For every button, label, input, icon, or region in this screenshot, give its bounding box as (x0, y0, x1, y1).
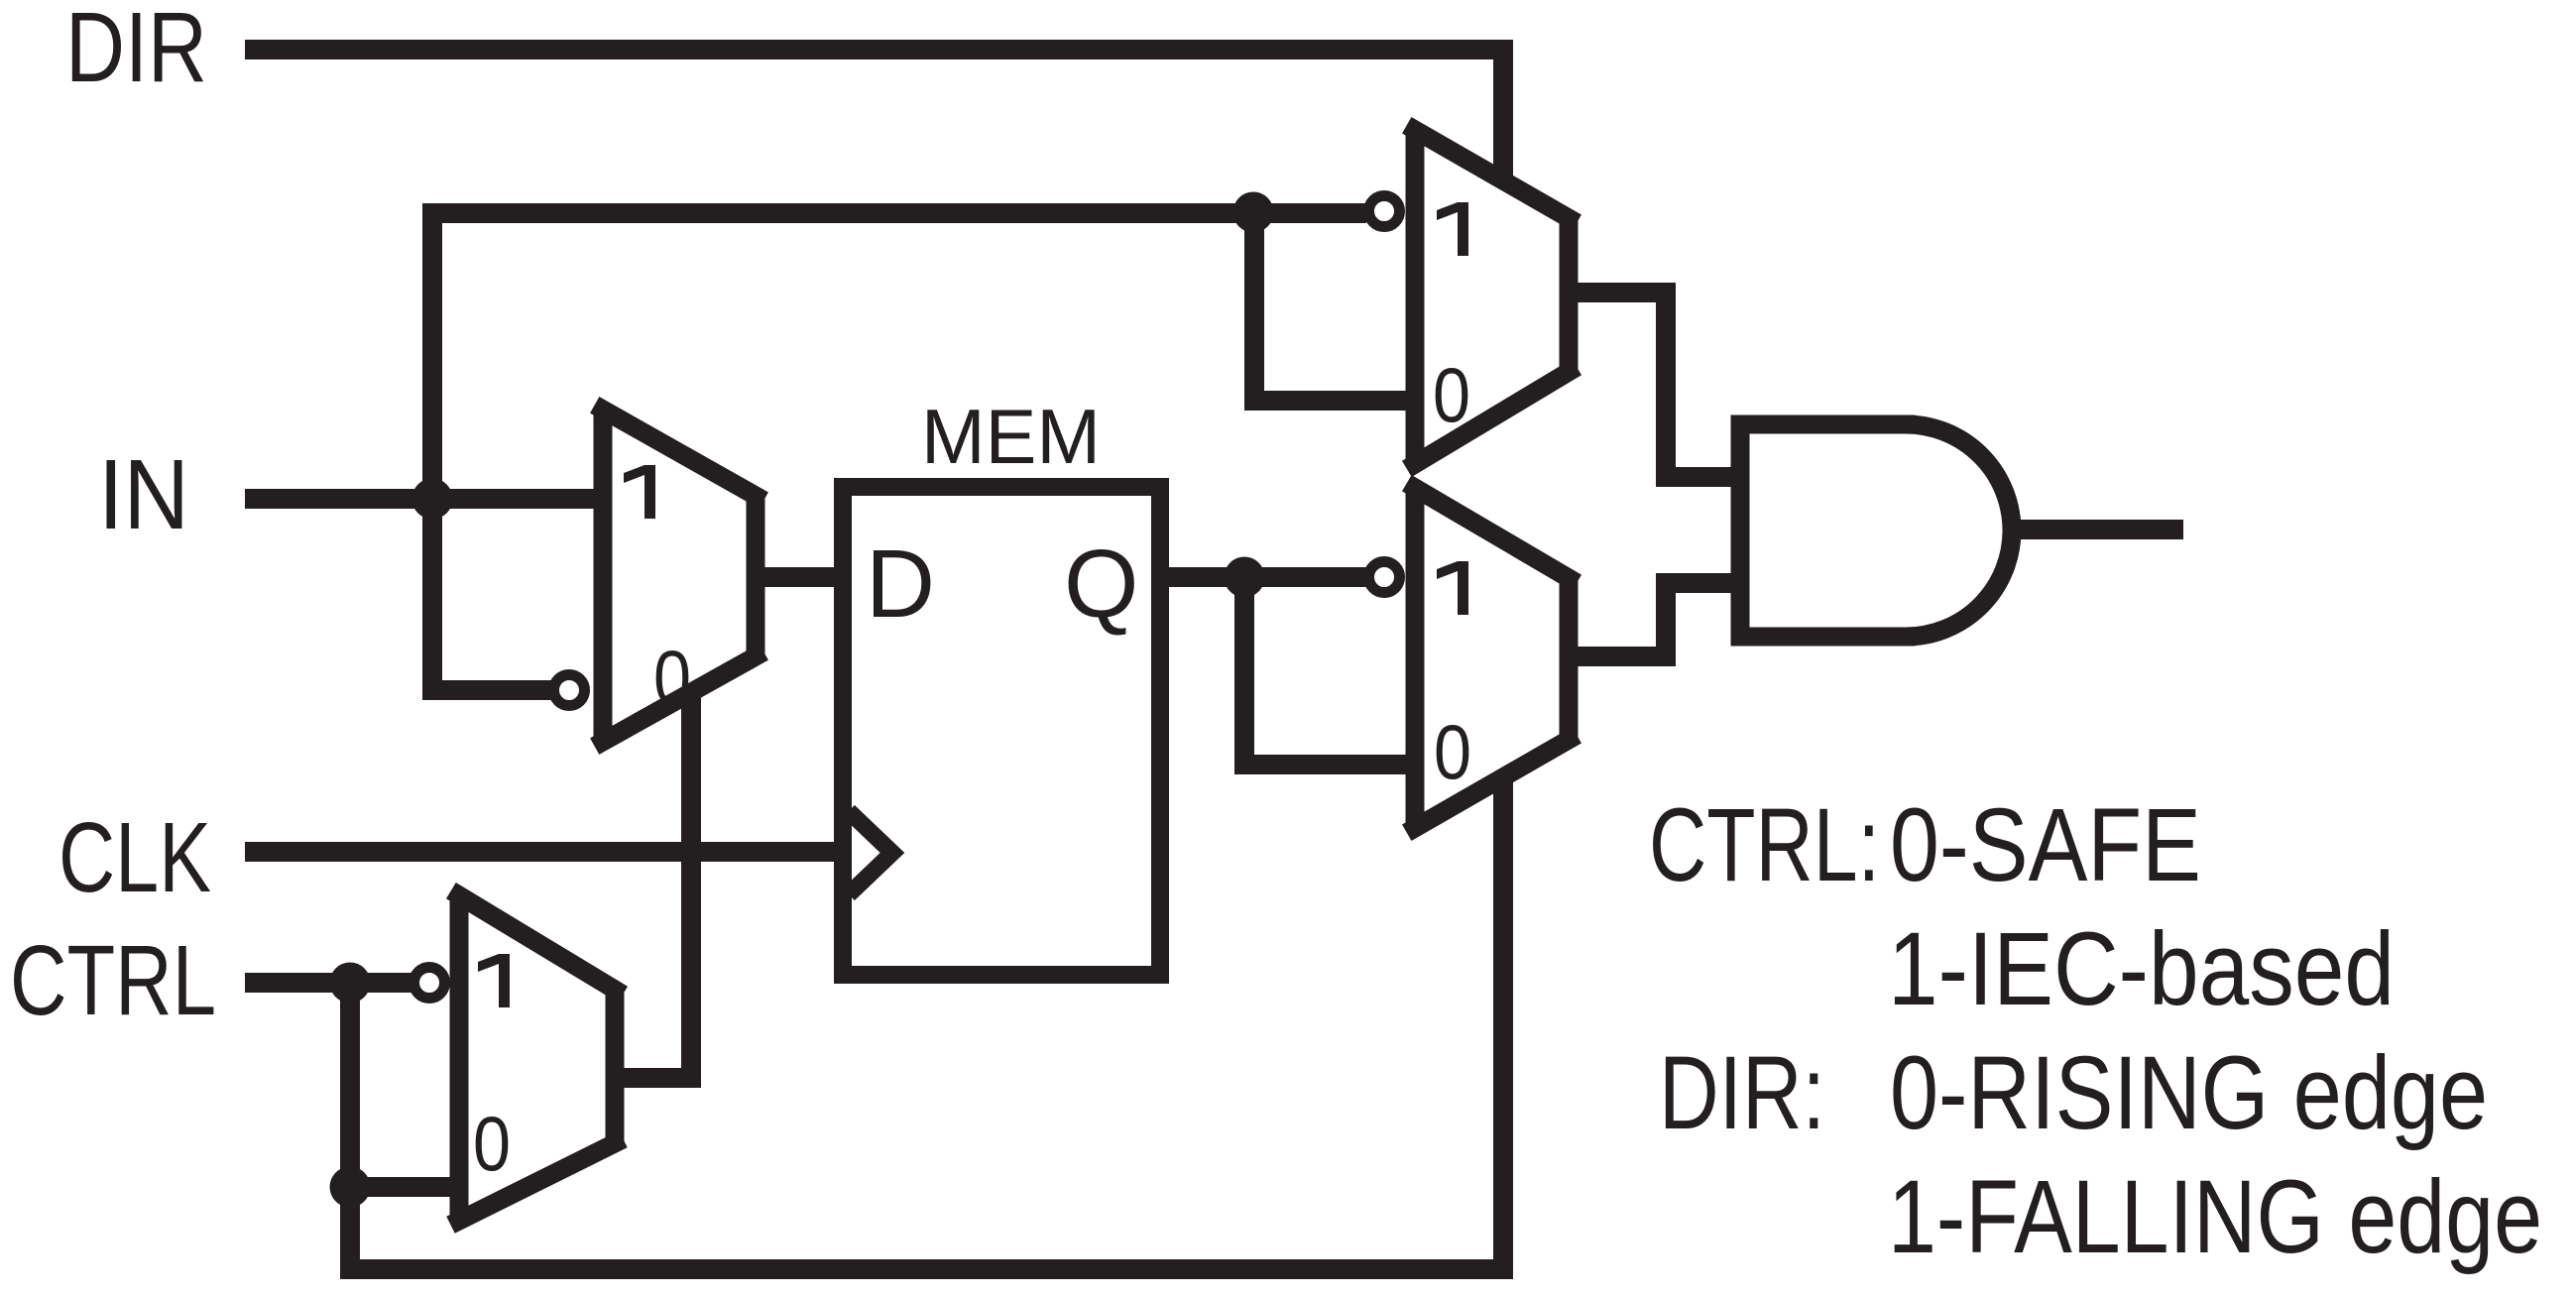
wire IN feedback to top mux (432, 213, 1366, 690)
svg-text:0-RISING edge: 0-RISING edge (1890, 1035, 2488, 1151)
junction CTRL node 1 (330, 963, 371, 1004)
wire CTRL mux 0-input (350, 1177, 464, 1197)
junction CTRL node 2 (330, 1167, 371, 1208)
wire AND output (2012, 520, 2183, 539)
pin label 1 of mux U3 (1437, 561, 1468, 615)
mux U4 (CTRL) (459, 895, 615, 1221)
svg-text:0: 0 (473, 1100, 511, 1187)
wire CTRL branch to 0-input and bottom rail (350, 773, 1503, 1269)
wire bottom mux output to AND (1569, 583, 1735, 656)
svg-text:D: D (866, 530, 935, 638)
svg-text:0: 0 (1433, 351, 1470, 438)
wire CLK (245, 842, 839, 862)
mux U1 (IN select) (603, 410, 756, 742)
svg-text:0: 0 (1434, 708, 1471, 795)
wire DIR net (245, 50, 1503, 184)
svg-text:0: 0 (653, 634, 691, 721)
wire CTRL (245, 973, 414, 993)
bubble on mux U4 input 1 (414, 968, 445, 999)
wire CTRL mux output / select of IN mux (615, 687, 691, 1078)
wire Q output (1160, 567, 1366, 587)
svg-text:CLK: CLK (59, 802, 211, 913)
wire bottom mux 0-loop (1244, 577, 1410, 765)
svg-text:1-FALLING edge: 1-FALLING edge (1888, 1159, 2542, 1275)
svg-text:Q: Q (1064, 530, 1138, 638)
svg-text:MEM: MEM (921, 393, 1101, 480)
mux U3 (bottom right) (1415, 488, 1569, 828)
svg-text:CTRL: CTRL (10, 925, 216, 1036)
svg-text:DIR:: DIR: (1659, 1035, 1825, 1151)
AND gate U5 (1740, 424, 2012, 637)
wire top mux output to AND (1569, 293, 1735, 477)
bubble on mux U1 input 0 (554, 675, 585, 706)
pin label 1 of mux U2 (1437, 202, 1468, 256)
pin label 1 of mux U1 (624, 465, 655, 519)
svg-text:1-IEC-based: 1-IEC-based (1888, 911, 2395, 1027)
wire D input (756, 567, 843, 587)
svg-text:0-SAFE: 0-SAFE (1890, 787, 2201, 903)
wire IN input (245, 489, 598, 509)
svg-text:DIR: DIR (65, 0, 207, 103)
junction feedback node (1233, 192, 1274, 233)
flip-flop clock chevron (849, 811, 892, 894)
junction Q node (1225, 557, 1265, 598)
bubble on mux U3 input 1 (1369, 562, 1400, 593)
junction IN node (412, 479, 453, 520)
pin label 1 of mux U4 (478, 954, 510, 1007)
flip-flop MEM box (843, 487, 1160, 975)
svg-text:IN: IN (98, 439, 189, 550)
wire top mux 0-loop (1254, 211, 1410, 401)
mux U2 (top right) (1415, 130, 1569, 464)
bubble on mux U2 input 1 (1369, 196, 1400, 227)
svg-text:CTRL:: CTRL: (1649, 787, 1880, 903)
